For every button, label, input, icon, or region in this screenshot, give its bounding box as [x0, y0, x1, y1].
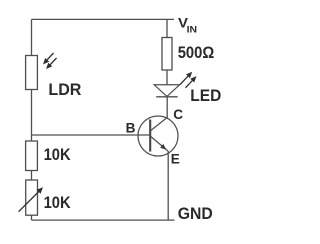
wire top horizontal (VIN rail): [32, 18, 175, 20]
wire base horizontal to transistor: [32, 134, 151, 136]
potentiometer arrow: [19, 187, 43, 211]
wire collector top lead: [166, 19, 168, 37]
potentiometer 10K body: [26, 180, 38, 215]
photoresistor LDR body: [26, 56, 38, 90]
svg-text:500Ω: 500Ω: [178, 43, 215, 62]
wire potentiometer bottom lead: [31, 215, 33, 220]
transistor base bar: [149, 120, 151, 152]
LED cathode bar: [156, 96, 178, 98]
wire emitter vertical: [167, 151, 169, 220]
LED D1 triangle: [154, 85, 179, 97]
svg-text:10K: 10K: [44, 145, 72, 164]
svg-text:LDR: LDR: [48, 80, 81, 99]
LED light arrow 1: [180, 72, 192, 85]
transistor emitter diagonal with arrow: [150, 136, 168, 151]
LDR light arrow 1: [43, 53, 54, 64]
svg-text:E: E: [171, 152, 180, 167]
transistor Q1 circle: [138, 116, 178, 156]
resistor 500 ohm body: [162, 38, 172, 71]
svg-text:C: C: [173, 107, 183, 122]
wire left vertical between LDR and 10K: [31, 90, 33, 142]
wire resistor to LED: [166, 70, 168, 85]
LED light arrow 2: [186, 76, 197, 88]
transistor collector diagonal: [150, 117, 167, 131]
svg-text:10K: 10K: [44, 193, 72, 212]
svg-text:GND: GND: [178, 204, 213, 223]
wire bottom horizontal (GND rail): [32, 219, 175, 221]
svg-text:LED: LED: [190, 86, 221, 105]
resistor 10K body: [26, 141, 38, 171]
LDR light arrow 2: [46, 58, 57, 69]
wire between 10K and potentiometer: [31, 171, 33, 181]
svg-text:B: B: [126, 121, 136, 136]
wire LED to transistor collector: [166, 97, 168, 118]
svg-text:IN: IN: [187, 24, 197, 34]
wire left vertical top segment: [31, 19, 33, 55]
